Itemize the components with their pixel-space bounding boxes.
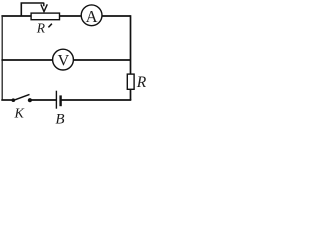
svg-text:K: K: [14, 107, 25, 122]
svg-text:B: B: [55, 112, 64, 128]
wire bottom: [1, 99, 131, 101]
switch K contact dot right: [28, 98, 32, 102]
ammeter A: [81, 5, 102, 26]
rheostat R' slider arrow: [41, 3, 47, 12]
switch K lever: [13, 94, 29, 100]
battery B long plate: [55, 91, 57, 109]
rheostat R' body: [31, 13, 59, 20]
wire middle (voltmeter branch): [1, 59, 131, 61]
wire right side: [130, 15, 132, 100]
svg-text:A: A: [86, 7, 98, 26]
svg-text:V: V: [58, 53, 70, 70]
label R' prime tick: [48, 24, 52, 28]
battery B short thick plate: [59, 95, 61, 106]
wire left side: [1, 15, 3, 100]
switch K contact dot left: [12, 98, 16, 102]
resistor R: [127, 74, 134, 89]
rheostat R' slider loop wire: [21, 3, 44, 16]
wire top (battery loop top rail): [1, 15, 130, 17]
voltmeter V: [53, 49, 74, 70]
svg-text:R: R: [136, 74, 147, 91]
svg-text:R: R: [36, 21, 46, 36]
